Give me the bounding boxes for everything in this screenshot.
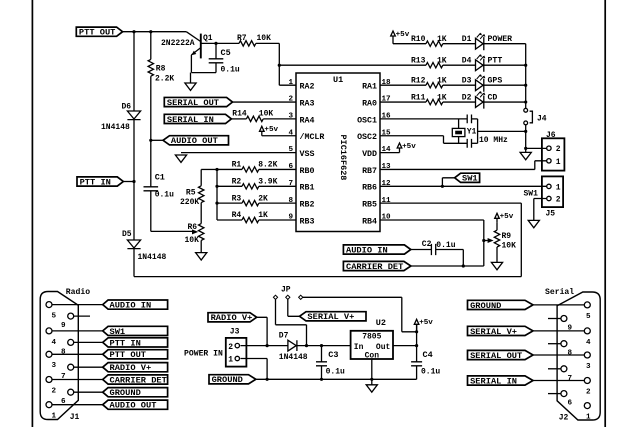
svg-text:AUDIO IN: AUDIO IN <box>110 301 152 311</box>
svg-text:2: 2 <box>586 389 591 397</box>
J2 pin 6 <box>561 391 567 397</box>
svg-text:AUDIO OUT: AUDIO OUT <box>171 136 218 146</box>
svg-text:R5: R5 <box>186 188 196 197</box>
net flag GROUND (center) <box>209 375 256 384</box>
svg-text:RA1: RA1 <box>362 83 377 92</box>
wire J3 pin 2 to D7 <box>241 345 288 347</box>
svg-text:2: 2 <box>556 196 561 205</box>
svg-text:0.1u: 0.1u <box>436 241 455 250</box>
wire C2 to carrier det node <box>436 250 463 267</box>
svg-text:5: 5 <box>288 146 293 154</box>
svg-text:5: 5 <box>52 313 57 321</box>
J2 pin 7 stub <box>548 368 561 370</box>
svg-text:VSS: VSS <box>300 150 315 159</box>
svg-text:R4: R4 <box>232 211 242 220</box>
ground below J4 <box>520 152 531 159</box>
wire J6 pin 2 to ground bus <box>526 147 547 149</box>
net flag SERIAL V+ (center) <box>300 312 367 321</box>
svg-text:3.9K: 3.9K <box>258 178 277 187</box>
junction base / C5 <box>214 42 217 45</box>
svg-text:1: 1 <box>288 79 293 87</box>
J2 pin 1 <box>584 403 590 409</box>
svg-text:1K: 1K <box>437 76 447 85</box>
svg-text:Serial: Serial <box>545 288 574 297</box>
connector J5 <box>542 176 563 207</box>
svg-text:2.2K: 2.2K <box>155 75 174 84</box>
junction JP3 node <box>415 330 418 333</box>
svg-text:6: 6 <box>288 163 293 171</box>
svg-text:D7: D7 <box>279 331 289 340</box>
svg-text:SERIAL V+: SERIAL V+ <box>470 327 517 337</box>
svg-text:RA0: RA0 <box>362 99 377 108</box>
resistor R8 2.2K <box>150 32 152 60</box>
svg-text:0.1u: 0.1u <box>221 65 240 74</box>
svg-text:7: 7 <box>568 375 573 383</box>
svg-text:8.2K: 8.2K <box>258 161 277 170</box>
capacitor osc load 1 <box>467 115 471 124</box>
svg-text:PTT IN: PTT IN <box>80 177 111 187</box>
J2 pin 4 <box>584 328 590 334</box>
net flag SERIAL IN (J2) <box>468 376 534 385</box>
svg-text:J5: J5 <box>546 209 556 218</box>
svg-text:D2: D2 <box>462 93 472 102</box>
svg-text:R12: R12 <box>411 76 426 85</box>
svg-text:+5v: +5v <box>396 31 410 39</box>
svg-text:2: 2 <box>288 96 293 104</box>
svg-text:C4: C4 <box>423 350 433 360</box>
svg-text:220K: 220K <box>180 198 199 207</box>
wire +5v to /MCLR <box>262 135 296 137</box>
wire C5 to Q1 emitter <box>191 72 216 74</box>
svg-text:3: 3 <box>586 363 591 371</box>
net flag PTT OUT <box>76 27 122 36</box>
ground below J5 <box>528 220 539 227</box>
wire J6 pin 1 to RB7 pin 13 <box>380 161 547 170</box>
wire ground rail <box>256 378 416 380</box>
wire GROUND to J2 <box>533 304 584 306</box>
J2 pin 5 <box>584 302 590 308</box>
svg-text:1K: 1K <box>437 35 447 44</box>
wire RB5 pin 11 loop <box>380 203 521 276</box>
svg-text:1K: 1K <box>437 93 447 102</box>
wire J1 pin to GROUND <box>74 391 103 393</box>
net flag SERIAL IN <box>164 114 231 123</box>
svg-text:+5v: +5v <box>402 143 416 151</box>
svg-text:OSC1: OSC1 <box>357 116 377 125</box>
wire C1 to R6 wiper <box>151 230 192 232</box>
svg-text:2N2222A: 2N2222A <box>161 39 195 48</box>
junction AUDIO OUT / R8 / C1 <box>149 139 152 142</box>
page border left <box>31 0 33 427</box>
J2 pin 7 <box>561 366 567 372</box>
net flag AUDIO OUT (J1) <box>103 400 168 409</box>
svg-text:2K: 2K <box>258 194 268 203</box>
wire J5 pin 2 to ground <box>534 199 547 221</box>
net flag GROUND (J2) <box>468 300 534 309</box>
svg-text:C2: C2 <box>422 240 432 249</box>
svg-text:C5: C5 <box>221 48 231 58</box>
svg-text:Q1: Q1 <box>203 34 213 43</box>
svg-text:2: 2 <box>556 145 561 154</box>
svg-text:0.1u: 0.1u <box>155 190 174 199</box>
net flag SERIAL OUT <box>164 97 232 106</box>
wire SW1 flag tap <box>442 178 454 187</box>
svg-text:GROUND: GROUND <box>470 301 501 311</box>
wire U2 Out to +5v node <box>393 345 417 347</box>
ground at Q1 emitter <box>190 73 192 83</box>
wire R11 to D2 <box>443 101 476 103</box>
connector J3 POWER IN <box>226 338 247 367</box>
svg-text:3: 3 <box>288 113 293 121</box>
wire SERIAL IN to R14 <box>231 118 246 120</box>
diode D5 1N4148 <box>127 240 140 249</box>
svg-text:RA3: RA3 <box>300 99 315 108</box>
net flag CARRIER DET <box>343 261 411 270</box>
J2 pin 3 <box>584 352 590 358</box>
svg-text:R11: R11 <box>411 93 426 102</box>
junction bus R3 <box>215 202 218 205</box>
svg-text:R9: R9 <box>502 232 512 241</box>
wire SERIAL OUT to RA3 pin 2 <box>233 101 297 103</box>
svg-text:POWER: POWER <box>488 35 513 44</box>
J1 pin 8 <box>68 339 74 345</box>
svg-text:RB5: RB5 <box>362 201 377 210</box>
connector J4 <box>524 108 528 112</box>
net flag AUDIO IN (J1) <box>103 300 168 309</box>
svg-text:1: 1 <box>556 183 561 192</box>
svg-text:8: 8 <box>568 350 573 358</box>
junction D7 / JP pin1 <box>305 344 308 347</box>
J2 pin 9 <box>561 316 567 322</box>
wire AUDIO IN to C2 <box>411 249 432 251</box>
LED D2 CD <box>476 95 484 108</box>
svg-text:RB1: RB1 <box>300 184 315 193</box>
svg-text:RB6: RB6 <box>362 184 377 193</box>
wire CARRIER DET to node <box>411 265 484 267</box>
svg-text:R14: R14 <box>232 109 247 118</box>
wire Q1 base to R7 <box>201 42 239 44</box>
svg-text:R13: R13 <box>411 56 426 65</box>
svg-text:VDD: VDD <box>362 150 377 159</box>
svg-text:RB2: RB2 <box>300 201 315 210</box>
svg-text:GROUND: GROUND <box>110 388 141 398</box>
resistor R9 10K potentiometer <box>496 222 498 230</box>
svg-text:7805: 7805 <box>362 332 381 341</box>
wire J3 pin 1 to ground rail <box>241 359 268 380</box>
svg-text:1K: 1K <box>437 56 447 65</box>
svg-text:+5v: +5v <box>419 319 433 327</box>
svg-text:SERIAL V+: SERIAL V+ <box>307 312 354 322</box>
net flag RADIO V+ (J1) <box>103 363 168 372</box>
summing bus <box>216 169 218 220</box>
net flag SW1 (J1) <box>103 326 168 335</box>
svg-text:D3: D3 <box>462 76 472 85</box>
wire D3 cathode to bus <box>484 84 526 86</box>
wire SERIAL IN to J2 <box>533 380 584 382</box>
svg-text:1K: 1K <box>258 211 268 220</box>
resistor R6 10K potentiometer <box>199 224 204 241</box>
junction R7 net / PTT LED row <box>278 64 281 67</box>
svg-text:6: 6 <box>568 400 573 408</box>
wire PTT OUT to Q1 collector <box>123 31 187 33</box>
junction bus R1 <box>215 168 218 171</box>
wire R14 to RA4 pin 3 <box>263 118 296 120</box>
net flag SERIAL V+ (J2) <box>468 326 534 335</box>
wire J1 pin to RADIO V+ <box>74 366 103 368</box>
svg-text:U2: U2 <box>376 318 386 328</box>
wire wiper arrow <box>484 240 488 242</box>
svg-text:PTT: PTT <box>488 57 503 66</box>
wire J4 to ground <box>525 125 527 153</box>
svg-text:R10: R10 <box>411 35 426 44</box>
svg-text:RB4: RB4 <box>362 217 377 226</box>
svg-text:SERIAL IN: SERIAL IN <box>167 115 214 125</box>
svg-text:J4: J4 <box>537 114 547 123</box>
wire bottom rail RB5 <box>134 276 521 278</box>
svg-text:2: 2 <box>228 343 233 352</box>
svg-text:D1: D1 <box>462 35 472 44</box>
svg-text:1N4148: 1N4148 <box>101 123 130 132</box>
wire J1 pin to CARRIER DET <box>52 379 103 381</box>
net flag AUDIO IN <box>343 245 410 254</box>
svg-text:4: 4 <box>288 129 293 137</box>
svg-text:RADIO V+: RADIO V+ <box>211 313 253 323</box>
net flag SERIAL OUT (J2) <box>468 350 534 359</box>
svg-text:+5v: +5v <box>500 213 514 221</box>
wire J1 pin to SW1 <box>52 330 103 332</box>
+5v at POWER LED row <box>391 31 396 44</box>
svg-text:9: 9 <box>61 322 66 330</box>
junction bus CD row <box>524 100 527 103</box>
svg-text:C1: C1 <box>155 172 165 182</box>
svg-text:POWER IN: POWER IN <box>184 350 223 359</box>
wire SERIAL V+ to J2 <box>533 330 584 332</box>
svg-text:RB0: RB0 <box>300 167 315 176</box>
diode D7 1N4148 <box>288 340 297 351</box>
wire OSC2 to load cap <box>380 136 467 144</box>
resistor R11 1K <box>380 101 426 103</box>
junction RADIO V+ / J3 pin 2 <box>266 344 269 347</box>
svg-text:1N4148: 1N4148 <box>138 253 167 262</box>
svg-text:Y1: Y1 <box>467 128 477 136</box>
svg-text:10K: 10K <box>185 236 200 245</box>
svg-text:RADIO V+: RADIO V+ <box>110 363 152 373</box>
diode D6 1N4148 <box>133 32 135 111</box>
net flag AUDIO OUT <box>163 136 229 145</box>
regulator U2 7805 <box>351 331 393 359</box>
+5v at R9 <box>495 213 500 222</box>
svg-text:AUDIO IN: AUDIO IN <box>346 245 388 255</box>
net flag PTT IN <box>77 177 123 186</box>
wire U2 Con to ground <box>371 359 373 385</box>
svg-text:J1: J1 <box>70 413 80 422</box>
crystal Y1 <box>458 119 460 128</box>
junction C3 top <box>320 344 323 347</box>
ground at VSS <box>175 155 186 162</box>
svg-text:3: 3 <box>52 362 57 370</box>
wire D7 cathode to U2 In <box>297 345 350 347</box>
wire PTT net to R13 <box>279 64 426 66</box>
svg-text:C3: C3 <box>328 350 338 360</box>
junction PTT OUT / D6 <box>132 30 135 33</box>
svg-text:J6: J6 <box>546 131 556 140</box>
+5v at U2 output <box>414 319 419 332</box>
LED D3 GPS <box>476 79 484 92</box>
J1 pin 2 <box>46 377 52 383</box>
svg-text:OSC2: OSC2 <box>357 133 377 142</box>
LED D1 POWER <box>476 37 484 50</box>
svg-text:SW1: SW1 <box>462 174 478 184</box>
svg-text:+5v: +5v <box>264 126 278 134</box>
net flag PTT IN (J1) <box>103 338 168 347</box>
junction SW1 tap <box>441 185 444 188</box>
junction bus GPS row <box>524 84 527 87</box>
resistor R12 1K <box>380 84 426 86</box>
wire PTT IN flag to node <box>123 181 134 183</box>
wire J1 pin to PTT OUT <box>52 353 103 355</box>
J1 pin 3 <box>46 351 52 357</box>
net flag SW1 <box>455 173 480 182</box>
J1 pin 5 <box>46 302 52 308</box>
junction J3 pin1 / ground rail <box>266 378 269 381</box>
connector J6 <box>542 138 565 170</box>
svg-text:RB3: RB3 <box>300 217 315 226</box>
wire OSC1 to load cap <box>380 118 467 120</box>
resistor R10 1K <box>393 43 426 45</box>
wire JP pin 3 to +5v node <box>303 297 417 332</box>
svg-text:RB7: RB7 <box>362 167 377 176</box>
capacitor C1 <box>150 140 152 186</box>
svg-text:GROUND: GROUND <box>212 375 243 385</box>
svg-text:0.1u: 0.1u <box>421 367 440 376</box>
junction RB4 / R9 wiper / carrier det <box>482 239 485 242</box>
svg-text:Con: Con <box>365 351 380 360</box>
svg-text:R3: R3 <box>232 194 242 203</box>
svg-text:4: 4 <box>52 339 57 347</box>
capacitor C3 0.1u <box>321 346 323 362</box>
svg-text:R6: R6 <box>188 223 198 232</box>
J2 pin 2 <box>584 378 590 384</box>
J2 pin 6 stub <box>548 393 561 395</box>
svg-text:J3: J3 <box>230 327 240 336</box>
svg-text:10K: 10K <box>259 109 274 118</box>
junction PTT IN node <box>132 180 135 183</box>
J2 pin 8 stub <box>548 343 561 345</box>
ground below U2 <box>366 385 377 392</box>
junction bus PTT row <box>524 64 527 67</box>
svg-text:1N4148: 1N4148 <box>279 353 308 362</box>
svg-text:10K: 10K <box>502 242 517 251</box>
svg-text:9: 9 <box>288 214 293 222</box>
capacitor C5 <box>215 43 217 58</box>
svg-text:/MCLR: /MCLR <box>300 132 325 142</box>
J1 pin 4 <box>46 328 52 334</box>
svg-text:PTT OUT: PTT OUT <box>110 350 147 360</box>
svg-text:D6: D6 <box>122 103 132 112</box>
wire SERIAL OUT to J2 <box>533 354 584 356</box>
svg-text:R2: R2 <box>232 178 242 187</box>
junction U2 Con / rail <box>370 378 373 381</box>
wire D4 cathode to bus <box>484 64 526 66</box>
resistor R2 3.9K <box>217 185 242 187</box>
svg-text:U1: U1 <box>333 75 343 85</box>
capacitor osc load 2 <box>467 139 471 148</box>
J2 pin 9 stub <box>548 318 561 320</box>
svg-text:R1: R1 <box>232 161 242 170</box>
wire R7 to RA2 pin 1 <box>256 43 296 85</box>
svg-text:CARRIER DET: CARRIER DET <box>346 262 403 272</box>
op-amp U1 <box>296 73 380 232</box>
svg-text:SERIAL OUT: SERIAL OUT <box>167 98 219 108</box>
wire AUDIO OUT flag to node <box>151 139 163 141</box>
+5v at VDD pin 14 <box>397 143 402 153</box>
resistor R1 8.2K <box>217 168 242 170</box>
junction J4 / crystal ground <box>524 130 527 133</box>
ground below R6 <box>196 253 207 260</box>
svg-text:2: 2 <box>52 387 57 395</box>
LED D4 PTT <box>476 59 484 72</box>
wire cap common <box>477 119 479 143</box>
svg-text:CD: CD <box>488 93 498 102</box>
wire J1 pin to AUDIO OUT <box>52 404 103 406</box>
svg-text:PTT IN: PTT IN <box>110 338 141 348</box>
svg-text:1: 1 <box>228 356 233 365</box>
connector J1 DB9 shell <box>40 292 78 420</box>
svg-text:10K: 10K <box>257 34 272 43</box>
svg-text:1: 1 <box>556 158 561 167</box>
svg-text:1: 1 <box>586 414 591 422</box>
J1 pin 9 stub <box>74 315 90 317</box>
svg-text:7: 7 <box>288 180 293 188</box>
wire RB6 pin 12 to J5 pin 1 <box>380 185 547 187</box>
transistor Q1 <box>200 34 202 59</box>
wire J1 pin to AUDIO IN <box>52 304 103 306</box>
wire crystal common to ground bus <box>478 130 526 132</box>
svg-text:4: 4 <box>586 339 591 347</box>
svg-text:RA2: RA2 <box>300 83 315 92</box>
wire D1 cathode to bus <box>484 43 526 45</box>
svg-text:0.1u: 0.1u <box>326 367 345 376</box>
svg-text:In: In <box>354 343 364 352</box>
capacitor C2 0.1u <box>431 244 435 255</box>
svg-text:8: 8 <box>288 197 293 205</box>
svg-text:10 MHz: 10 MHz <box>479 136 508 145</box>
wire R5 top to summing bus <box>201 168 217 170</box>
J1 pin 6 <box>68 389 74 395</box>
wire R10 to D1 <box>443 43 476 45</box>
svg-text:CARRIER DET: CARRIER DET <box>110 375 167 385</box>
wire JP pin 2 to SERIAL V+ <box>288 299 300 316</box>
net flag CARRIER DET (J1) <box>103 375 168 384</box>
J1 pin 9 <box>68 313 74 319</box>
wire R13 to D4 <box>443 64 476 66</box>
+5v at /MCLR pin 4 <box>259 126 264 135</box>
wire JP pin 1 to V+ node <box>276 299 307 345</box>
resistor R3 2K <box>217 202 242 204</box>
resistor R13 1K <box>426 62 443 67</box>
svg-text:SW1: SW1 <box>110 327 126 337</box>
svg-text:J2: J2 <box>559 414 569 423</box>
junction bus R2 <box>215 185 218 188</box>
svg-text:SERIAL IN: SERIAL IN <box>470 376 517 386</box>
svg-text:8: 8 <box>61 348 66 356</box>
wire VDD stub <box>380 152 400 154</box>
J1 pin 7 <box>68 364 74 370</box>
svg-text:SERIAL OUT: SERIAL OUT <box>470 351 522 361</box>
svg-text:RA4: RA4 <box>300 116 315 125</box>
wire VSS pin 5 to ground <box>181 152 296 154</box>
junction J4 / J6 pin 2 <box>524 147 527 150</box>
